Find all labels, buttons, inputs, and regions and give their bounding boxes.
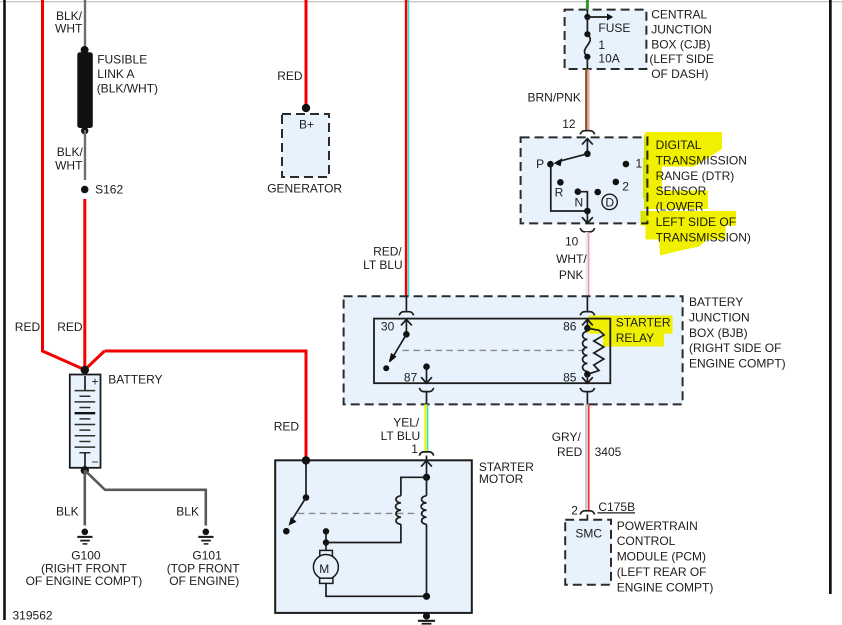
- svg-text:C175B: C175B: [598, 500, 635, 514]
- wire BLK/WHT upper: [84, 0, 86, 50]
- svg-text:R: R: [555, 186, 564, 200]
- relay coil pin 86 to 85: [582, 319, 604, 383]
- starter motor box: [275, 460, 472, 613]
- generator B+ box: [282, 114, 329, 177]
- svg-text:BATTERY: BATTERY: [108, 373, 162, 387]
- svg-text:GENERATOR: GENERATOR: [267, 182, 342, 196]
- wire BLK/WHT lower: [84, 130, 86, 180]
- svg-text:(RIGHT SIDE OF: (RIGHT SIDE OF: [689, 341, 781, 355]
- svg-text:OF ENGINE COMPT): OF ENGINE COMPT): [26, 574, 143, 588]
- starter relay inner box: [374, 319, 610, 384]
- svg-text:−: −: [92, 455, 99, 469]
- connector arc pin 30: [399, 312, 413, 316]
- svg-text:BLK: BLK: [56, 505, 79, 519]
- svg-text:JUNCTION: JUNCTION: [689, 310, 750, 324]
- BJB box: [344, 296, 683, 404]
- svg-text:1: 1: [598, 38, 605, 52]
- pin 12 arrow: [582, 139, 593, 154]
- wire RED from S162 to battery: [83, 199, 86, 370]
- svg-text:RED: RED: [557, 445, 583, 459]
- svg-text:JUNCTION: JUNCTION: [651, 23, 712, 37]
- DTR sensor box: [521, 137, 648, 223]
- solenoid contact: [323, 528, 329, 534]
- svg-text:RED: RED: [277, 69, 303, 83]
- svg-text:85: 85: [563, 370, 577, 384]
- contact 2: [613, 179, 620, 186]
- contact N: [575, 188, 582, 195]
- svg-text:LINK A: LINK A: [97, 67, 134, 81]
- relay contact pin 87: [421, 363, 432, 383]
- svg-text:POWERTRAIN: POWERTRAIN: [617, 519, 698, 533]
- connector arc below DTR: [580, 228, 594, 232]
- svg-text:2: 2: [571, 504, 578, 518]
- svg-text:(LEFT REAR OF: (LEFT REAR OF: [617, 565, 707, 579]
- pin 30 lead: [405, 296, 407, 311]
- highlight STARTER RELAY label: [589, 316, 673, 347]
- pull-in winding: [326, 477, 427, 542]
- svg-text:OF DASH): OF DASH): [651, 67, 708, 81]
- wire P to pin 10: [551, 164, 588, 211]
- svg-text:WHT: WHT: [55, 158, 83, 172]
- wire RED left vertical to battery: [43, 0, 85, 370]
- svg-text:BLK: BLK: [176, 505, 199, 519]
- node S162: [81, 186, 89, 194]
- relay contact arm pin 30: [383, 319, 412, 371]
- svg-text:YEL/: YEL/: [393, 416, 420, 430]
- node solenoid coils top: [423, 474, 430, 481]
- motor M: [313, 543, 426, 597]
- node motor feed: [323, 539, 329, 545]
- svg-text:OF ENGINE): OF ENGINE): [169, 574, 239, 588]
- relay link dashed: [403, 349, 590, 351]
- svg-text:12: 12: [562, 117, 576, 131]
- pin 86 lead: [586, 296, 588, 311]
- node battery negative: [81, 466, 89, 474]
- svg-text:30: 30: [381, 320, 395, 334]
- svg-text:STARTER: STARTER: [616, 316, 671, 330]
- solenoid link dashed: [298, 512, 418, 514]
- connector arc below 87: [419, 388, 433, 392]
- svg-text:RED/: RED/: [373, 245, 402, 259]
- connector arc below 85: [580, 388, 594, 392]
- battery: [70, 375, 101, 470]
- wire BRN/PNK: [586, 69, 588, 131]
- svg-text:319562: 319562: [13, 609, 53, 623]
- svg-text:LT BLU: LT BLU: [363, 258, 403, 272]
- solenoid switch: [283, 460, 309, 534]
- wire YEL/LT BLU: [426, 404, 428, 451]
- contact R: [557, 179, 564, 186]
- svg-text:RED: RED: [57, 320, 83, 334]
- svg-text:M: M: [319, 562, 329, 576]
- svg-text:B+: B+: [299, 118, 314, 132]
- svg-text:10A: 10A: [598, 51, 619, 65]
- svg-text:MODULE (PCM): MODULE (PCM): [617, 550, 706, 564]
- wire BLK to G100: [84, 470, 87, 525]
- PCM box: [565, 520, 611, 585]
- contact D: [594, 189, 601, 196]
- svg-text:P: P: [536, 157, 544, 171]
- node motor return: [423, 593, 430, 600]
- contact 1: [623, 161, 630, 168]
- wire RED generator feed vertical and horizontal to battery: [85, 0, 306, 460]
- svg-text:RED: RED: [15, 320, 41, 334]
- svg-text:WHT/: WHT/: [556, 252, 587, 266]
- svg-text:D: D: [605, 195, 614, 209]
- case ground: [418, 612, 435, 623]
- hold-in winding: [421, 477, 426, 596]
- connector arc pin 86: [580, 312, 594, 316]
- svg-text:ENGINE COMPT): ENGINE COMPT): [617, 580, 714, 594]
- svg-text:(BLK/WHT): (BLK/WHT): [97, 82, 158, 96]
- svg-text:BLK/: BLK/: [57, 145, 84, 159]
- fusible link A: [77, 52, 93, 128]
- connector arc pin 12: [580, 131, 594, 135]
- svg-text:BOX (BJB): BOX (BJB): [689, 326, 748, 340]
- svg-text:SMC: SMC: [575, 527, 602, 541]
- svg-text:2: 2: [622, 180, 629, 194]
- connector arc starter motor: [419, 452, 433, 456]
- svg-text:G101: G101: [192, 548, 222, 562]
- svg-text:G100: G100: [71, 548, 101, 562]
- svg-text:1: 1: [636, 157, 643, 171]
- svg-text:10: 10: [565, 235, 579, 249]
- highlight DTR label: [641, 132, 737, 256]
- svg-text:MOTOR: MOTOR: [479, 472, 524, 486]
- svg-text:ENGINE COMPT): ENGINE COMPT): [689, 357, 786, 371]
- svg-text:BATTERY: BATTERY: [689, 295, 743, 309]
- svg-text:CENTRAL: CENTRAL: [651, 8, 707, 22]
- pin 1 arrow into starter: [421, 461, 432, 478]
- wire GRN stub: [586, 0, 589, 10]
- node starter feed: [302, 456, 310, 464]
- selector wiper to P: [557, 154, 588, 162]
- svg-text:BRN/PNK: BRN/PNK: [528, 91, 581, 105]
- wire WHT/PNK: [586, 232, 588, 296]
- svg-text:N: N: [575, 196, 584, 210]
- svg-text:BOX (CJB): BOX (CJB): [651, 37, 710, 51]
- border left: [3, 0, 6, 620]
- top hairline: [0, 1, 842, 2]
- svg-text:+: +: [92, 375, 99, 389]
- svg-text:GRY/: GRY/: [552, 430, 582, 444]
- svg-text:PNK: PNK: [559, 268, 584, 282]
- wire BLK to G101: [85, 470, 206, 525]
- svg-text:FUSIBLE: FUSIBLE: [97, 53, 147, 67]
- svg-text:86: 86: [563, 320, 577, 334]
- node battery positive: [81, 366, 89, 374]
- svg-text:RELAY: RELAY: [616, 331, 654, 345]
- svg-text:CONTROL: CONTROL: [617, 534, 676, 548]
- CJB fuse box: [565, 10, 647, 69]
- ground G100: [77, 529, 92, 544]
- svg-text:FUSE: FUSE: [598, 21, 630, 35]
- svg-text:RANGE (DTR): RANGE (DTR): [656, 169, 735, 183]
- svg-text:WHT: WHT: [55, 22, 83, 36]
- svg-text:RED: RED: [274, 419, 300, 433]
- svg-text:(LEFT SIDE: (LEFT SIDE: [649, 52, 713, 66]
- border right: [829, 0, 832, 594]
- contact P: [547, 161, 554, 168]
- svg-text:3405: 3405: [595, 445, 622, 459]
- pin 10 node and arrow: [584, 208, 591, 215]
- svg-text:87: 87: [404, 370, 418, 384]
- wire RED/LT BLU: [406, 0, 409, 296]
- wire GRY/RED: [586, 404, 589, 510]
- fuse 1 10A: [584, 10, 613, 69]
- ground G101: [198, 529, 213, 544]
- svg-text:1: 1: [411, 442, 418, 456]
- svg-text:S162: S162: [95, 183, 123, 197]
- node generator tap: [302, 104, 310, 112]
